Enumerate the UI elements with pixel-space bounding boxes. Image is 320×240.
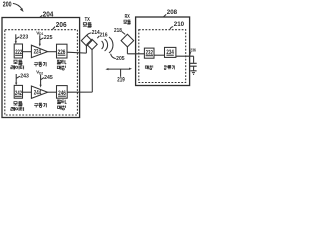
svg-text:210: 210 xyxy=(174,21,185,28)
svg-text:208: 208 xyxy=(167,9,178,16)
svg-text:243: 243 xyxy=(20,73,29,79)
radiated waves 205 xyxy=(102,41,104,49)
box 208 (RX outer box) xyxy=(136,17,190,86)
text filter, matching under 246 xyxy=(57,100,61,104)
TX antenna 214 (diamond) xyxy=(81,35,92,46)
wire antenna 218 to 232 xyxy=(127,47,144,54)
wire 234 to capacitor 236 xyxy=(176,56,194,63)
block 234 (rectifier) xyxy=(165,47,176,57)
text driver under 244 xyxy=(34,104,38,108)
distance arrow 219 xyxy=(108,68,130,70)
driver amp 244 xyxy=(31,86,47,98)
wire 222 to 224 xyxy=(23,51,32,53)
text modulator under 222 xyxy=(14,60,18,63)
leader tick 206 xyxy=(53,27,55,30)
block 246 (filter, matching row 2) xyxy=(57,86,68,99)
svg-text:236: 236 xyxy=(190,47,196,52)
block 242 (modulator, row 2) xyxy=(14,85,22,98)
wire 246 to antenna 216 xyxy=(67,50,92,93)
text filter, matching under 226 xyxy=(57,60,61,64)
wire 224 to 226 xyxy=(48,51,57,53)
svg-text:224: 224 xyxy=(34,49,42,56)
ground xyxy=(190,71,196,75)
dashed box 206 xyxy=(5,30,78,115)
svg-text:245: 245 xyxy=(44,75,53,81)
text modulator under 242 xyxy=(14,102,18,105)
wire 226 to antenna 214 xyxy=(67,46,86,53)
driver amp 224 xyxy=(31,45,47,57)
svg-text:223: 223 xyxy=(20,35,29,41)
svg-text:200: 200 xyxy=(3,1,12,8)
wire 242 to 244 xyxy=(23,91,32,93)
dashed box 210 xyxy=(139,30,186,83)
arrow 245 into 244 xyxy=(40,75,42,86)
block 222 (modulator) xyxy=(14,44,22,58)
svg-text:TX: TX xyxy=(85,17,91,23)
svg-text:RX: RX xyxy=(125,14,131,20)
text matching under 232 xyxy=(145,66,148,70)
TX antenna 216 (diamond) xyxy=(87,39,97,49)
box 204 (TX outer box) xyxy=(2,18,80,118)
arrow 243 into 242 xyxy=(15,74,17,83)
block 226 (filter, matching) xyxy=(57,44,68,58)
RX antenna 218 (diamond) xyxy=(121,34,134,47)
leader arrow for 200 xyxy=(13,3,22,9)
svg-text:219: 219 xyxy=(117,78,125,84)
svg-text:204: 204 xyxy=(43,11,54,18)
svg-text:218: 218 xyxy=(114,28,122,34)
block 232 (matching) xyxy=(144,48,154,58)
wire 244 to 246 xyxy=(48,91,57,93)
arrow 225 into 224 xyxy=(39,35,41,44)
svg-text:205: 205 xyxy=(116,56,125,62)
svg-text:D2: D2 xyxy=(39,72,43,76)
svg-text:244: 244 xyxy=(34,90,42,97)
text driver under 224 xyxy=(34,63,38,67)
leader tick 204 xyxy=(40,15,42,17)
svg-text:206: 206 xyxy=(56,22,67,29)
capacitor 236 xyxy=(190,63,197,66)
arrow 223 into 222 xyxy=(15,34,17,42)
svg-text:225: 225 xyxy=(44,35,53,41)
wire 232 to 234 xyxy=(154,54,165,56)
svg-text:216: 216 xyxy=(100,33,108,39)
text rectifier under 234 xyxy=(164,65,167,69)
